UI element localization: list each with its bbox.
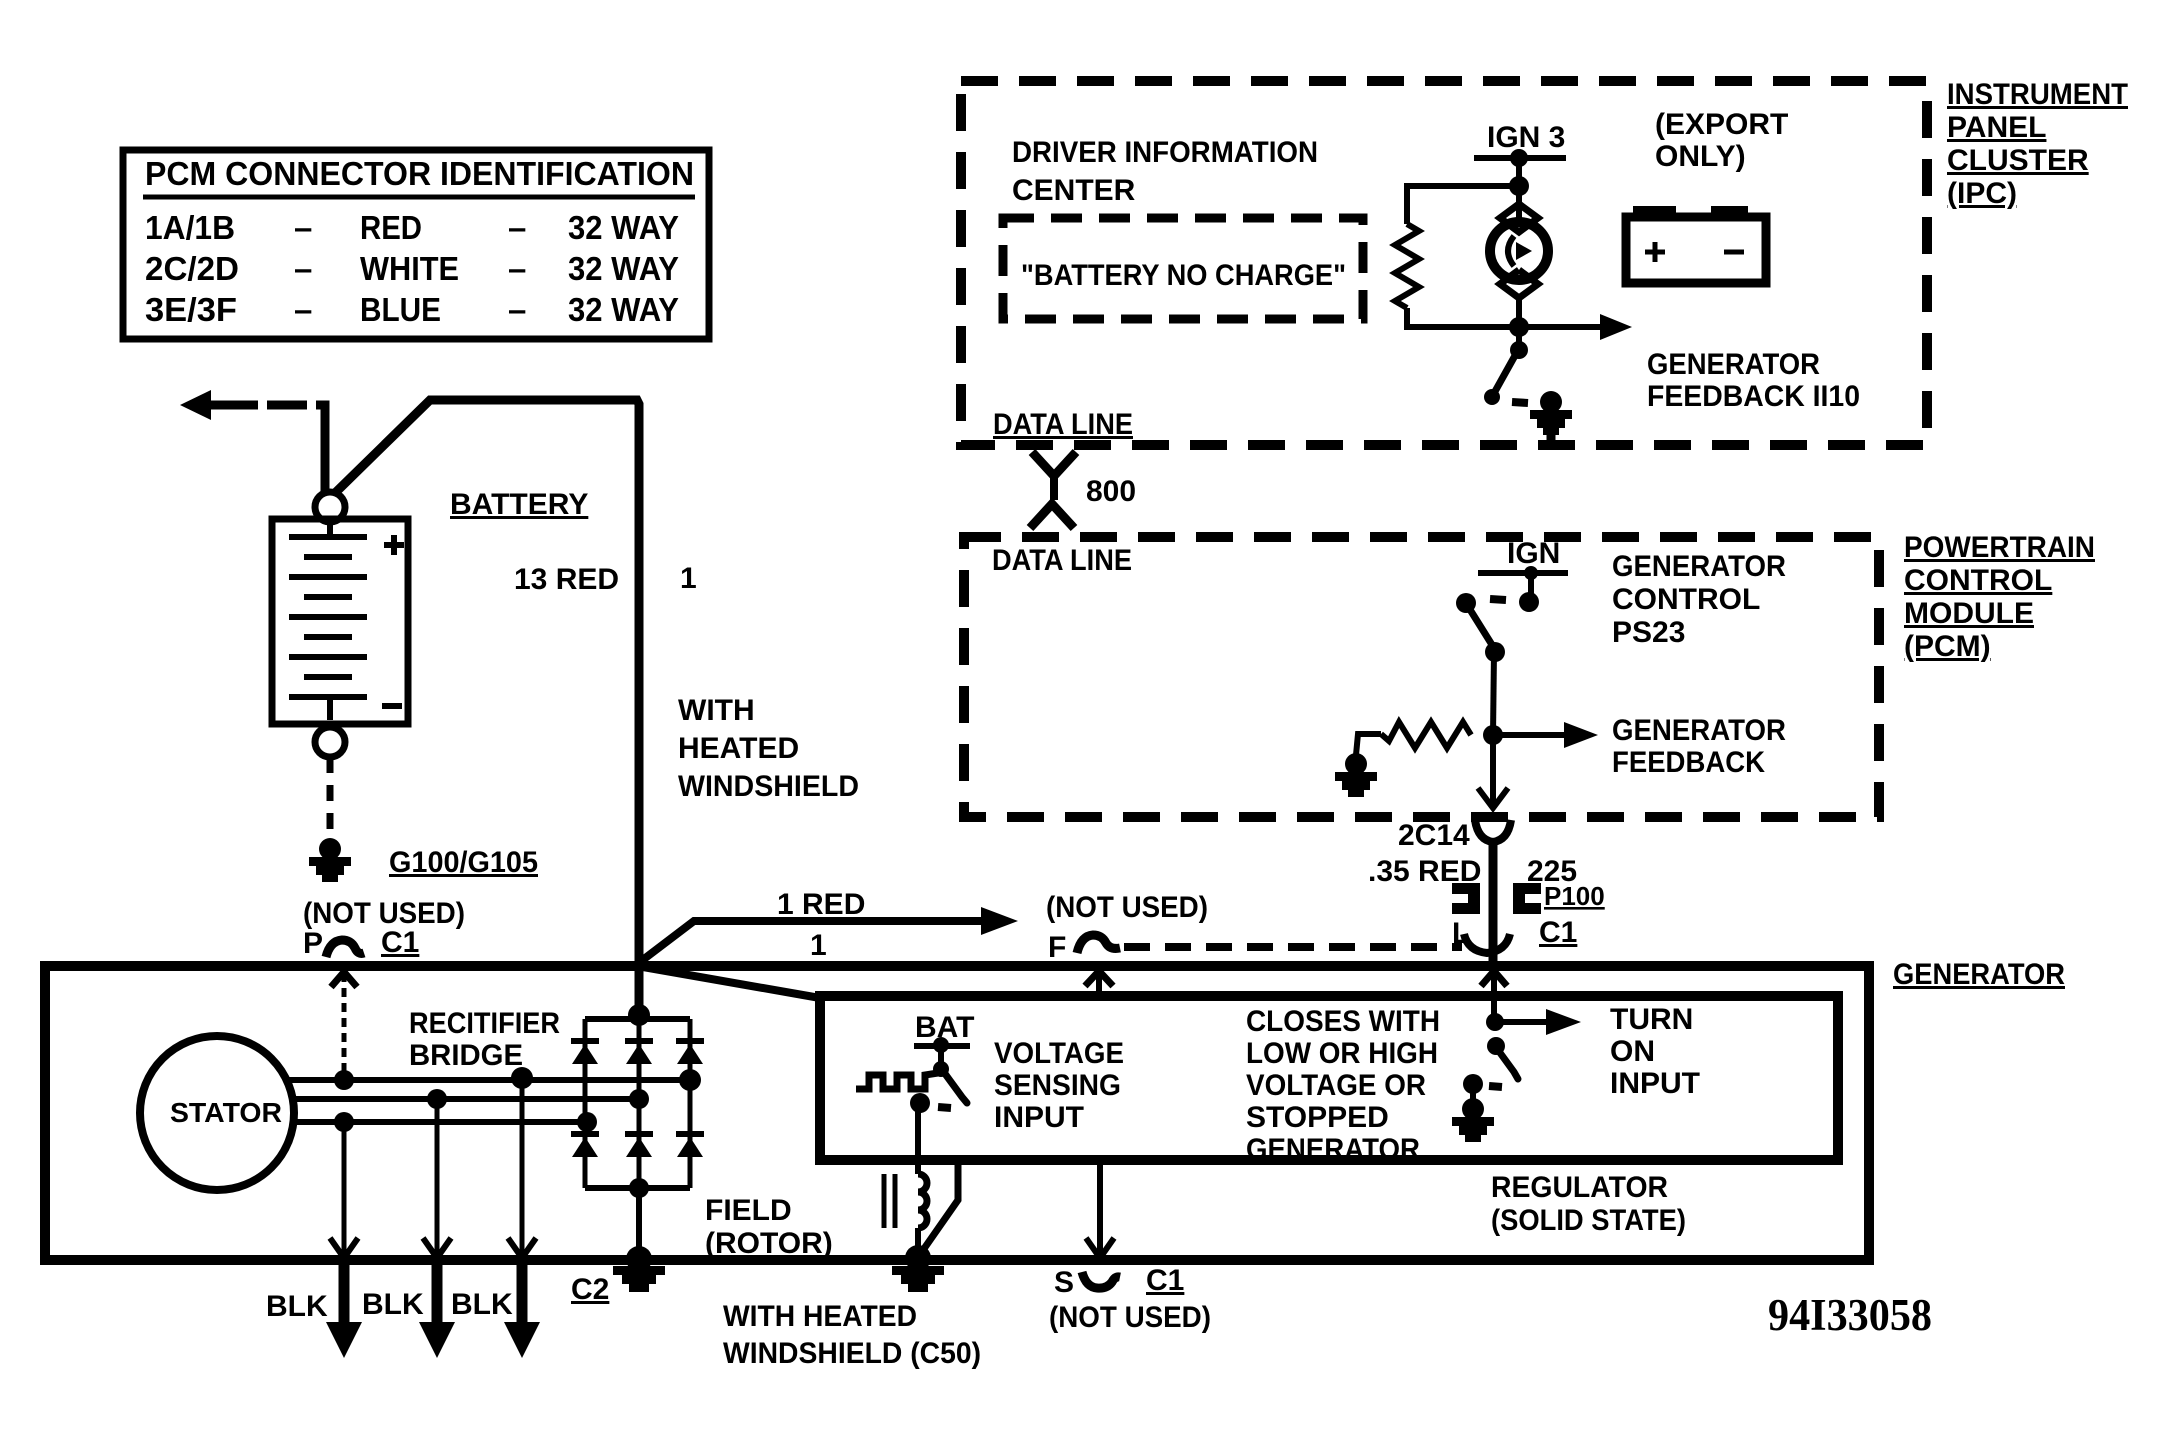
ground (PCM resistor): [1335, 753, 1377, 797]
arrow S down: [1086, 1238, 1114, 1258]
gauge top diamond: [1500, 204, 1538, 232]
node line1/dropC: [511, 1067, 533, 1089]
bridge right column wire: [688, 1019, 693, 1188]
bridge middle column wire: [637, 1019, 642, 1188]
svg-text:C2: C2: [571, 1273, 609, 1306]
svg-text:2C/2D: 2C/2D: [145, 250, 239, 287]
regulator box: [820, 996, 1838, 1160]
connector cup L (generator C1): [1464, 934, 1510, 953]
stator phase line 2: [293, 1096, 641, 1102]
svg-text:INPUT: INPUT: [994, 1101, 1084, 1134]
battery minus sign: [382, 703, 402, 709]
ground (IPC switch): [1530, 391, 1572, 435]
svg-text:STATOR: STATOR: [170, 1097, 282, 1128]
svg-text:ONLY): ONLY): [1655, 140, 1746, 173]
arrow up at L entry: [1481, 971, 1507, 986]
diode top-middle: [625, 1041, 653, 1064]
node C2 on case: [626, 1246, 652, 1272]
svg-text:800: 800: [1086, 475, 1136, 508]
wire pivot to feedback node: [1493, 652, 1494, 735]
svg-text:(IPC): (IPC): [1947, 177, 2017, 210]
svg-text:BRIDGE: BRIDGE: [409, 1039, 523, 1072]
svg-text:32 WAY: 32 WAY: [568, 250, 679, 287]
switch pivot dot: [1510, 341, 1528, 359]
svg-text:VOLTAGE OR: VOLTAGE OR: [1246, 1069, 1426, 1102]
svg-text:1A/1B: 1A/1B: [145, 209, 235, 246]
wire branch down to regulator corner: [643, 967, 820, 998]
svg-text:RECITIFIER: RECITIFIER: [409, 1007, 560, 1040]
svg-text:BATTERY: BATTERY: [450, 488, 588, 521]
wire junction down to 2C14: [1490, 735, 1496, 803]
bridge bottom bus: [585, 1185, 690, 1191]
diode bottom-middle: [625, 1134, 653, 1157]
svg-text:GENERATOR: GENERATOR: [1246, 1133, 1420, 1166]
node line1/right column: [679, 1069, 701, 1091]
svg-text:GENERATOR: GENERATOR: [1893, 958, 2065, 991]
connector 800 upper half: [1032, 452, 1076, 476]
bridge top bus: [585, 1016, 690, 1022]
svg-text:F: F: [1048, 931, 1066, 964]
wire battery to top run: [334, 400, 639, 1016]
node bottom bus: [629, 1178, 649, 1198]
switch contact dash: [1512, 402, 1528, 403]
ground G100/G105: [309, 838, 351, 882]
stud ground C50: [892, 1266, 944, 1292]
arrow up to P: [331, 972, 357, 987]
diode top-right: [676, 1041, 704, 1064]
arrow up at F on regulator bus: [1096, 972, 1102, 995]
wire bottom bus to C2: [636, 1188, 642, 1258]
connector P100 right bracket: [1513, 883, 1541, 894]
svg-text:CLOSES WITH: CLOSES WITH: [1246, 1005, 1440, 1038]
switch pivot: [1485, 642, 1505, 662]
resistor (PCM feedback): [1381, 722, 1471, 748]
node feedback junction: [1483, 725, 1503, 745]
svg-text:IGN: IGN: [1507, 537, 1560, 570]
battery plus sign: [384, 542, 404, 548]
fixed contact (PCM switch): [1519, 592, 1539, 612]
wire battery negative to ground (dashed): [327, 757, 334, 840]
wire coil to C50: [915, 1228, 921, 1258]
svg-text:1: 1: [810, 929, 827, 962]
wire sense contact down to field: [915, 1105, 921, 1174]
node line3/left column: [577, 1112, 597, 1132]
connector bump F: [1077, 935, 1120, 953]
node line3/dropA: [334, 1112, 354, 1132]
switch pivot (turn on): [1487, 1037, 1505, 1055]
svg-text:(PCM): (PCM): [1904, 630, 1991, 663]
svg-text:WINDSHIELD: WINDSHIELD: [678, 770, 859, 803]
diode bottom-left: [571, 1134, 599, 1157]
wire arrow turn on input: [1495, 1019, 1548, 1025]
svg-text:REGULATOR: REGULATOR: [1491, 1171, 1668, 1204]
wire arrow generator feedback (PCM): [1493, 732, 1566, 738]
svg-text:13 RED: 13 RED: [514, 563, 619, 596]
svg-text:POWERTRAIN: POWERTRAIN: [1904, 531, 2095, 564]
wire resistor to ground: [1356, 734, 1381, 755]
svg-text:1 RED: 1 RED: [777, 888, 865, 921]
battery plates: [327, 522, 333, 536]
switch arm (PCM generator control): [1469, 608, 1494, 648]
battery no charge dashed box: [1003, 218, 1363, 319]
connector P100 left bracket: [1452, 883, 1480, 894]
node line2/middle column: [629, 1089, 649, 1109]
wire gauge to lower junction: [1516, 295, 1522, 350]
connector cup 2C14 (PCM C1): [1475, 820, 1511, 842]
wire L into generator: [1491, 950, 1497, 1024]
svg-text:INSTRUMENT: INSTRUMENT: [1947, 78, 2128, 111]
svg-text:RED: RED: [360, 209, 422, 246]
wire 1 RED branch: [640, 921, 983, 962]
wire branch to resistor: [1407, 186, 1519, 224]
svg-text:1: 1: [680, 562, 697, 595]
svg-text:INPUT: INPUT: [1610, 1067, 1700, 1100]
stator phase line 1: [287, 1077, 692, 1083]
wire arrow to left (battery feed): [180, 390, 211, 420]
svg-text:FEEDBACK II10: FEEDBACK II10: [1647, 380, 1860, 413]
svg-text:STOPPED: STOPPED: [1246, 1101, 1389, 1134]
stator circle: [140, 1036, 294, 1190]
svg-text:IGN 3: IGN 3: [1487, 121, 1565, 154]
svg-text:P100: P100: [1544, 881, 1605, 911]
svg-text:–: –: [508, 209, 526, 246]
BLK drop B: [435, 1099, 440, 1256]
svg-text:(NOT USED): (NOT USED): [1046, 891, 1208, 924]
svg-text:GENERATOR: GENERATOR: [1612, 550, 1786, 583]
svg-text:32 WAY: 32 WAY: [568, 291, 679, 328]
svg-text:C1: C1: [381, 926, 419, 959]
svg-text:P: P: [303, 927, 323, 960]
table box: [123, 150, 709, 339]
IPC dashed box: [961, 81, 1927, 445]
wire corner down to battery: [316, 405, 325, 492]
contact dash: [1489, 1086, 1502, 1087]
BLK drop C: [520, 1078, 525, 1256]
node P/line1: [334, 1070, 354, 1090]
svg-text:–: –: [294, 291, 312, 328]
IGN feed bar: [1478, 570, 1568, 576]
svg-text:3E/3F: 3E/3F: [145, 291, 237, 328]
stator phase line 3: [293, 1119, 587, 1125]
svg-text:BLK: BLK: [266, 1290, 328, 1323]
gauge circle (charge indicator): [1490, 222, 1548, 280]
svg-text:CONTROL: CONTROL: [1612, 583, 1760, 616]
battery negative terminal circle: [315, 727, 345, 757]
switch arm (turn on): [1498, 1050, 1518, 1079]
ground (turn on switch): [1452, 1098, 1494, 1142]
svg-text:BLK: BLK: [451, 1288, 513, 1321]
arrow into connector C1: [1478, 788, 1508, 808]
switch arm (IPC): [1493, 352, 1517, 395]
moving contact dot: [1456, 593, 1476, 613]
node turn-on junction: [1486, 1013, 1504, 1031]
svg-text:PS23: PS23: [1612, 616, 1685, 649]
connector bump P: [326, 940, 364, 957]
svg-text:ON: ON: [1610, 1035, 1655, 1068]
table title underline: [143, 195, 695, 200]
svg-text:"BATTERY NO CHARGE": "BATTERY NO CHARGE": [1021, 259, 1346, 292]
svg-text:32 WAY: 32 WAY: [568, 209, 679, 246]
generator box: [45, 966, 1869, 1260]
wire C1 to P100: [1489, 840, 1498, 964]
svg-text:–: –: [294, 250, 312, 287]
node line2/dropB: [427, 1089, 447, 1109]
svg-text:2C14: 2C14: [1398, 819, 1470, 852]
battery icon (export telltale): [1626, 217, 1766, 283]
switch arm (voltage sensing): [943, 1071, 967, 1103]
wire resistor bottom to junction: [1407, 308, 1519, 327]
wire arrow to generator feedback (IPC): [1519, 324, 1602, 330]
node junction below IGN3: [1509, 176, 1529, 196]
IGN 3 feed bar: [1474, 155, 1566, 161]
svg-text:–: –: [508, 250, 526, 287]
fixed contact dot: [910, 1093, 930, 1113]
wire contact to ground: [1470, 1086, 1476, 1102]
svg-text:WINDSHIELD (C50): WINDSHIELD (C50): [723, 1337, 981, 1370]
gauge inner glyph: [1508, 236, 1514, 266]
svg-text:BLUE: BLUE: [360, 291, 441, 328]
field core bars: [882, 1174, 887, 1228]
svg-text:DATA LINE: DATA LINE: [992, 544, 1132, 577]
resistor (IPC lamp shunt): [1395, 224, 1419, 308]
node lower junction: [1509, 317, 1529, 337]
svg-text:WHITE: WHITE: [360, 250, 459, 287]
svg-text:LOW OR HIGH: LOW OR HIGH: [1246, 1037, 1438, 1070]
bridge left column wire: [583, 1019, 588, 1188]
contact dash: [1490, 599, 1506, 600]
stud ground C2: [613, 1266, 665, 1292]
svg-text:FIELD: FIELD: [705, 1194, 792, 1227]
voltage sense pivot: [933, 1061, 949, 1077]
svg-text:DRIVER INFORMATION: DRIVER INFORMATION: [1012, 136, 1318, 169]
svg-text:HEATED: HEATED: [678, 732, 799, 765]
field coil (rotor winding): [918, 1174, 927, 1228]
gauge bottom diamond: [1500, 270, 1538, 298]
svg-text:C1: C1: [1539, 916, 1577, 949]
svg-text:CENTER: CENTER: [1012, 174, 1136, 207]
svg-text:BLK: BLK: [362, 1288, 424, 1321]
node C50: [905, 1245, 931, 1271]
battery positive terminal circle: [315, 492, 345, 522]
svg-text:VOLTAGE: VOLTAGE: [994, 1037, 1124, 1070]
fixed contact dot: [1463, 1074, 1483, 1094]
svg-text:G100/G105: G100/G105: [389, 846, 538, 879]
diode top-left: [571, 1041, 599, 1064]
svg-text:C1: C1: [1146, 1264, 1184, 1297]
svg-text:94I33058: 94I33058: [1768, 1290, 1932, 1340]
diode bottom-right: [676, 1134, 704, 1157]
wire IGN stub down: [1528, 573, 1534, 596]
PCM dashed box: [964, 537, 1879, 817]
svg-text:FEEDBACK: FEEDBACK: [1612, 746, 1765, 779]
svg-text:S: S: [1054, 1266, 1074, 1299]
wire regulator case to C50: [921, 1160, 958, 1253]
svg-text:PANEL: PANEL: [1947, 111, 2046, 144]
svg-text:MODULE: MODULE: [1904, 597, 2034, 630]
svg-text:WITH: WITH: [678, 694, 755, 727]
svg-text:(NOT USED): (NOT USED): [1049, 1301, 1211, 1334]
dashed wire F to L: [1124, 943, 1462, 951]
wire S down from regulator: [1097, 1160, 1103, 1256]
svg-text:PCM CONNECTOR IDENTIFICATION: PCM CONNECTOR IDENTIFICATION: [145, 155, 694, 192]
svg-text:–: –: [294, 209, 312, 246]
svg-text:WITH HEATED: WITH HEATED: [723, 1300, 917, 1333]
svg-text:DATA LINE: DATA LINE: [993, 408, 1133, 441]
BAT feed bar: [914, 1043, 970, 1049]
svg-text:GENERATOR: GENERATOR: [1647, 348, 1820, 381]
battery B1 body: [272, 519, 408, 724]
svg-text:SENSING: SENSING: [994, 1069, 1121, 1102]
svg-text:TURN: TURN: [1610, 1003, 1693, 1036]
connector bump S: [1082, 1272, 1120, 1288]
wire IGN3 down to gauge: [1516, 158, 1522, 222]
connector 800 lower half: [1030, 504, 1074, 528]
node main feed / top bus: [628, 1004, 650, 1026]
svg-text:GENERATOR: GENERATOR: [1612, 714, 1786, 747]
svg-text:CONTROL: CONTROL: [1904, 564, 2052, 597]
wire P down to stator: [342, 973, 347, 1080]
svg-text:–: –: [508, 291, 526, 328]
svg-text:(ROTOR): (ROTOR): [705, 1227, 833, 1260]
BLK drop A: [342, 1122, 347, 1256]
svg-text:CLUSTER: CLUSTER: [1947, 144, 2089, 177]
wire BAT stub: [938, 1046, 944, 1066]
contact dash: [938, 1107, 951, 1108]
svg-text:(EXPORT: (EXPORT: [1655, 108, 1788, 141]
thermistor squiggle: [856, 1073, 938, 1089]
svg-text:(SOLID STATE): (SOLID STATE): [1491, 1204, 1686, 1237]
